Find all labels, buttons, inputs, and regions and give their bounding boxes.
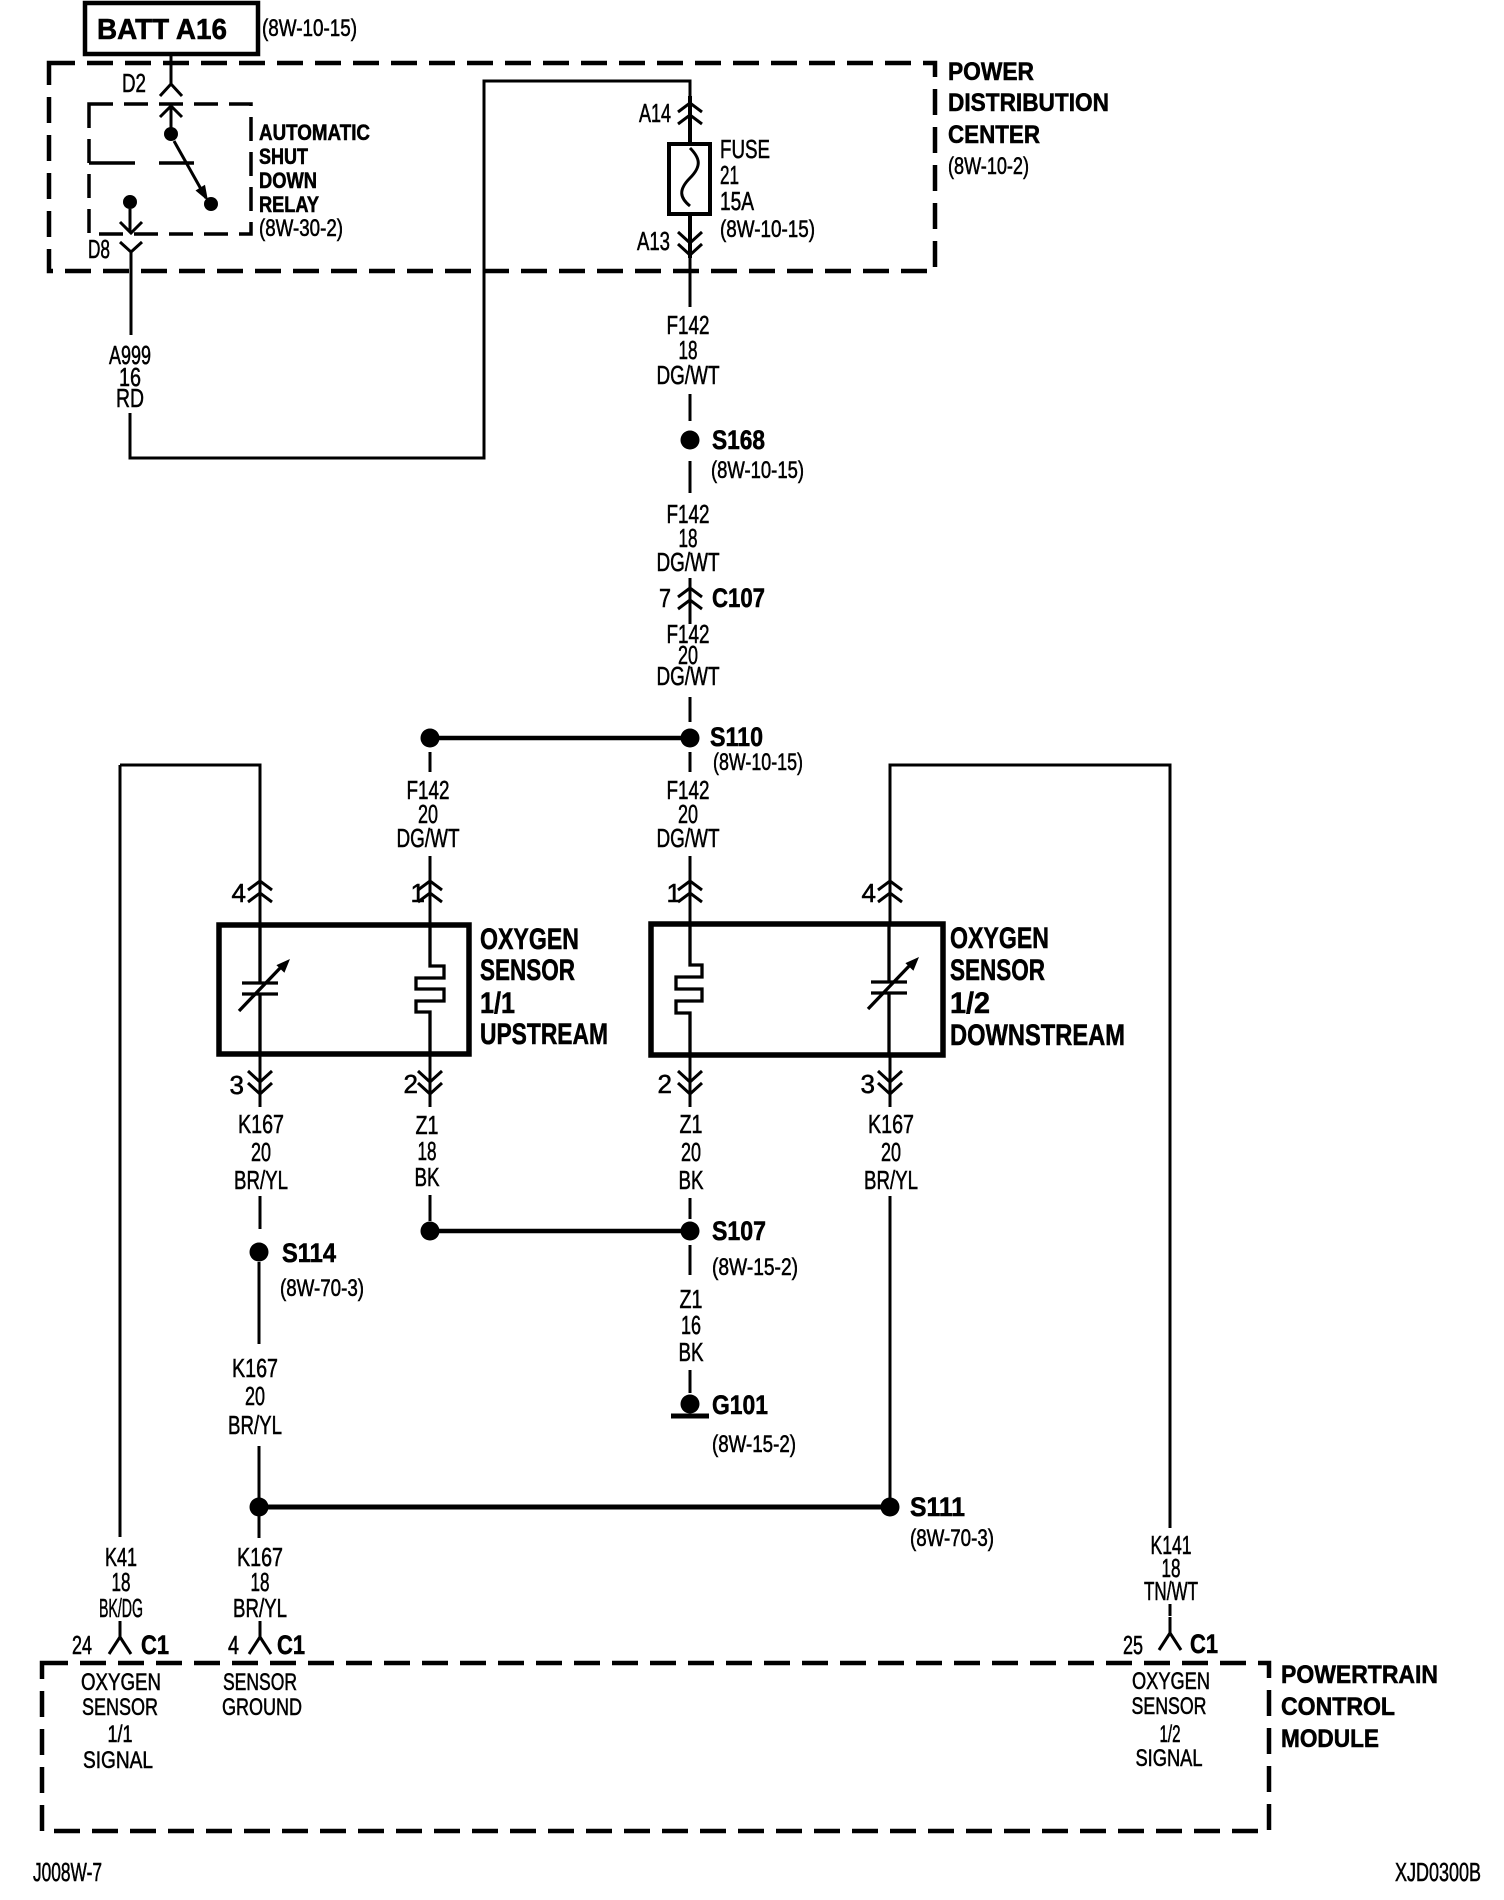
svg-text:16: 16 <box>681 1310 701 1340</box>
svg-text:A14: A14 <box>639 98 671 128</box>
svg-text:1/1: 1/1 <box>108 1721 133 1748</box>
svg-text:20: 20 <box>245 1381 265 1411</box>
svg-text:4: 4 <box>232 878 246 908</box>
svg-text:7: 7 <box>659 583 671 613</box>
svg-text:C1: C1 <box>277 1630 305 1660</box>
svg-text:DISTRIBUTION: DISTRIBUTION <box>948 89 1109 117</box>
svg-text:XJD0300B: XJD0300B <box>1395 1857 1481 1887</box>
svg-text:1/1: 1/1 <box>480 987 515 1020</box>
svg-text:SIGNAL: SIGNAL <box>83 1747 153 1774</box>
svg-text:J008W-7: J008W-7 <box>33 1857 102 1887</box>
svg-text:3: 3 <box>230 1070 244 1100</box>
svg-text:BR/YL: BR/YL <box>228 1410 282 1440</box>
svg-text:(8W-10-15): (8W-10-15) <box>262 15 357 42</box>
svg-text:1/2: 1/2 <box>950 987 990 1020</box>
svg-text:(8W-30-2): (8W-30-2) <box>259 215 343 242</box>
svg-text:RD: RD <box>116 383 144 413</box>
svg-text:DG/WT: DG/WT <box>657 547 720 577</box>
svg-text:DG/WT: DG/WT <box>657 661 720 691</box>
svg-text:GROUND: GROUND <box>222 1694 302 1721</box>
svg-text:SENSOR: SENSOR <box>223 1669 297 1696</box>
svg-text:BK: BK <box>679 1337 704 1367</box>
svg-text:BR/YL: BR/YL <box>233 1593 287 1623</box>
svg-text:S111: S111 <box>910 1492 965 1522</box>
svg-text:C107: C107 <box>712 583 765 613</box>
svg-text:1: 1 <box>411 878 425 908</box>
svg-text:BK: BK <box>415 1162 440 1192</box>
svg-text:SENSOR: SENSOR <box>82 1694 158 1721</box>
svg-text:4: 4 <box>228 1630 239 1660</box>
svg-text:15A: 15A <box>720 186 754 216</box>
svg-text:BATT A16: BATT A16 <box>97 14 227 46</box>
svg-text:(8W-15-2): (8W-15-2) <box>712 1254 798 1281</box>
svg-text:C1: C1 <box>141 1630 169 1660</box>
svg-text:UPSTREAM: UPSTREAM <box>480 1018 608 1051</box>
svg-text:BR/YL: BR/YL <box>864 1165 918 1195</box>
svg-text:2: 2 <box>658 1069 672 1099</box>
svg-text:G101: G101 <box>712 1390 768 1420</box>
svg-text:OXYGEN: OXYGEN <box>950 922 1049 955</box>
svg-text:24: 24 <box>72 1630 92 1660</box>
svg-text:K167: K167 <box>238 1109 284 1139</box>
svg-text:DG/WT: DG/WT <box>397 823 460 853</box>
svg-text:POWERTRAIN: POWERTRAIN <box>1281 1661 1438 1689</box>
svg-text:(8W-10-15): (8W-10-15) <box>711 457 804 484</box>
svg-text:BK/DG: BK/DG <box>99 1593 143 1623</box>
svg-text:25: 25 <box>1123 1630 1143 1660</box>
svg-text:BR/YL: BR/YL <box>234 1165 288 1195</box>
svg-text:(8W-10-15): (8W-10-15) <box>713 749 803 776</box>
svg-text:(8W-10-15): (8W-10-15) <box>720 216 815 243</box>
svg-text:4: 4 <box>862 878 876 908</box>
svg-text:S110: S110 <box>710 722 763 752</box>
svg-text:OXYGEN: OXYGEN <box>81 1669 161 1696</box>
svg-text:TN/WT: TN/WT <box>1144 1576 1198 1606</box>
svg-text:(8W-10-2): (8W-10-2) <box>948 153 1029 180</box>
svg-text:OXYGEN: OXYGEN <box>1132 1668 1210 1695</box>
svg-text:SIGNAL: SIGNAL <box>1136 1745 1203 1772</box>
svg-text:SENSOR: SENSOR <box>480 954 575 987</box>
svg-text:20: 20 <box>681 1137 701 1167</box>
svg-text:MODULE: MODULE <box>1281 1725 1379 1753</box>
svg-text:CONTROL: CONTROL <box>1281 1693 1395 1721</box>
svg-text:AUTOMATIC: AUTOMATIC <box>259 120 370 145</box>
svg-text:1: 1 <box>667 878 681 908</box>
svg-text:OXYGEN: OXYGEN <box>480 923 579 956</box>
svg-text:A13: A13 <box>637 226 670 256</box>
svg-text:S168: S168 <box>712 425 765 455</box>
svg-text:D2: D2 <box>122 68 146 98</box>
svg-text:(8W-15-2): (8W-15-2) <box>712 1431 796 1458</box>
svg-text:C1: C1 <box>1190 1629 1218 1659</box>
svg-text:DG/WT: DG/WT <box>657 823 720 853</box>
svg-text:20: 20 <box>251 1137 271 1167</box>
svg-text:S107: S107 <box>712 1216 766 1246</box>
svg-text:20: 20 <box>881 1137 901 1167</box>
svg-text:(8W-70-3): (8W-70-3) <box>910 1525 994 1552</box>
svg-text:POWER: POWER <box>948 58 1034 86</box>
svg-text:D8: D8 <box>88 234 110 264</box>
svg-text:CENTER: CENTER <box>948 121 1040 149</box>
svg-text:2: 2 <box>404 1069 418 1099</box>
svg-text:S114: S114 <box>282 1238 336 1268</box>
svg-text:SHUT: SHUT <box>259 144 308 169</box>
svg-text:3: 3 <box>861 1069 875 1099</box>
svg-text:SENSOR: SENSOR <box>950 954 1045 987</box>
svg-text:Z1: Z1 <box>680 1109 703 1139</box>
svg-text:1/2: 1/2 <box>1160 1721 1181 1748</box>
svg-text:K167: K167 <box>232 1353 278 1383</box>
svg-text:DOWN: DOWN <box>259 168 317 193</box>
svg-text:DOWNSTREAM: DOWNSTREAM <box>950 1019 1125 1052</box>
svg-text:(8W-70-3): (8W-70-3) <box>280 1275 364 1302</box>
svg-text:SENSOR: SENSOR <box>1132 1693 1207 1720</box>
svg-text:BK: BK <box>679 1165 704 1195</box>
svg-text:K167: K167 <box>868 1109 914 1139</box>
svg-text:DG/WT: DG/WT <box>657 360 720 390</box>
svg-text:RELAY: RELAY <box>259 192 319 217</box>
